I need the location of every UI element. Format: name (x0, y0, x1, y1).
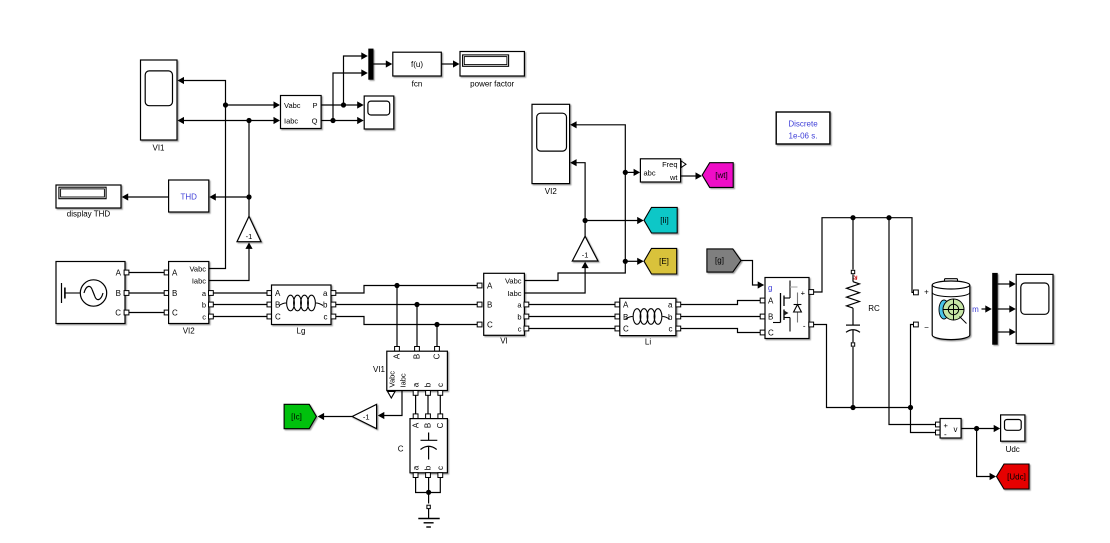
wire demux out 2 (998, 305, 1016, 312)
svg-text:c: c (436, 466, 445, 470)
svg-text:VI2: VI2 (545, 187, 558, 196)
wire VI.Iabc to gain -1 (mid) (524, 262, 588, 293)
svg-text:b: b (668, 313, 673, 322)
svg-text:c: c (436, 383, 445, 387)
svg-text:+: + (801, 289, 806, 298)
svg-text:A: A (768, 297, 774, 306)
display THD (56, 185, 121, 219)
svg-text:display THD: display THD (67, 210, 111, 219)
three-phase VI measurement VI2 (169, 262, 214, 336)
active reactive power meter (Vabc P / Iabc Q) (281, 96, 322, 129)
battery (924, 279, 970, 340)
ground (418, 509, 439, 527)
wire phase C source to VI2 (129, 310, 169, 315)
svg-text:−: − (924, 323, 929, 332)
inductor block Li (620, 298, 681, 346)
svg-text:Iabc: Iabc (192, 277, 206, 286)
svg-text:[wt]: [wt] (715, 171, 727, 180)
svg-text:Vabc: Vabc (505, 277, 522, 286)
svg-text:A: A (275, 289, 281, 298)
wire phase a VI to Li (529, 302, 620, 307)
svg-text:[Ic]: [Ic] (291, 412, 302, 421)
svg-text:B: B (487, 301, 492, 310)
wire from [g] to converter gate (741, 261, 764, 289)
wire C outputs to ground node (416, 478, 441, 509)
wire DC+ rail (converter + to battery +) (814, 215, 919, 295)
svg-text:wt: wt (669, 173, 678, 182)
svg-text:b: b (323, 301, 328, 310)
svg-text:C: C (115, 309, 121, 318)
wire phase a VI2 to Lg (213, 291, 272, 296)
svg-text:v: v (954, 425, 958, 434)
svg-text:-1: -1 (246, 232, 253, 241)
from tag [g] (707, 249, 741, 272)
power factor display (460, 52, 524, 89)
wire mux to fcn (374, 60, 393, 67)
wire DC- rail (converter - to battery -/ v meter) (814, 325, 911, 411)
mux (P,Q) (368, 49, 373, 80)
wire phase a Li to converter (681, 298, 765, 304)
svg-text:Vabc: Vabc (284, 101, 301, 110)
wire tap b down to VI1 (415, 305, 420, 352)
goto tag [Udc] (997, 464, 1030, 489)
svg-text:-: - (803, 322, 806, 331)
wire tap c down to VI1 (435, 325, 440, 352)
svg-text:A: A (411, 422, 420, 428)
wire PLL wt to goto [wt] (681, 172, 702, 179)
wire phase c VI to Li (529, 326, 620, 331)
svg-text:Vabc: Vabc (387, 371, 396, 388)
wire fcn to power factor display (441, 60, 459, 67)
svg-text:a: a (668, 301, 673, 310)
svg-text:B: B (412, 354, 421, 359)
IGBT converter bridge (765, 278, 814, 339)
three-phase VI measurement VI (484, 273, 529, 345)
svg-text:VI2: VI2 (183, 327, 196, 336)
svg-text:a: a (411, 382, 420, 387)
svg-text:fcn: fcn (412, 80, 423, 89)
svg-text:Li: Li (645, 338, 651, 347)
svg-text:abc: abc (644, 169, 656, 178)
svg-text:+: + (924, 288, 929, 297)
svg-text:power factor: power factor (470, 80, 514, 89)
goto tag [wt] (702, 163, 733, 188)
svg-text:C: C (436, 422, 445, 428)
scope PQ (small) (364, 96, 394, 129)
svg-text:Q: Q (312, 117, 318, 126)
wire phase c Li to converter (681, 329, 765, 335)
gain -1 (capacitor current inverter) (352, 404, 376, 428)
gain -1 (Iabc inverter, left) (237, 216, 261, 241)
svg-text:C: C (275, 313, 281, 322)
scope VI1 (141, 60, 178, 153)
svg-text:+: + (944, 421, 949, 430)
goto tag [E] (644, 248, 677, 274)
svg-text:g: g (768, 284, 772, 293)
svg-text:RC: RC (868, 304, 880, 313)
wire phase b VI2 to Lg (213, 302, 272, 307)
wire battery - down to v meter - (908, 322, 940, 435)
wire Vabc measurement net (VI2.Vabc to scope VI1 and PQ meter) (178, 77, 281, 269)
wire demux out 3 (998, 328, 1016, 335)
svg-text:B: B (172, 289, 177, 298)
svg-text:[g]: [g] (715, 256, 724, 265)
svg-text:c: c (202, 313, 206, 322)
svg-text:A: A (392, 353, 401, 359)
wire battery m to demux (972, 305, 992, 314)
svg-text:A: A (487, 282, 493, 291)
svg-text:b: b (424, 465, 433, 470)
wire VI1.c to C.C (438, 395, 443, 418)
svg-text:[Udc]: [Udc] (1007, 473, 1026, 482)
wire Iabc measurement net (gain out to scope VI1 and PQ meter) (178, 117, 281, 216)
gain -1 (line current inverter) (572, 236, 598, 261)
discrete solver annotation (776, 112, 830, 144)
wire VI1.b to C.B (426, 395, 431, 418)
svg-text:VI1: VI1 (152, 144, 165, 153)
svg-text:Iabc: Iabc (507, 289, 521, 298)
wire THD branch (209, 193, 249, 200)
wire VI.Vabc riser (to scope VI2, PLL, goto [E]) (524, 121, 628, 280)
svg-text:C: C (623, 325, 629, 334)
svg-text:1e-06 s.: 1e-06 s. (789, 132, 818, 141)
svg-text:B: B (424, 423, 433, 428)
svg-text:THD: THD (180, 193, 197, 202)
svg-text:-1: -1 (363, 412, 370, 421)
svg-text:B: B (768, 313, 773, 322)
wire phase b VI to Li (529, 314, 620, 319)
svg-text:C: C (398, 445, 404, 454)
wire phase B source to VI2 (129, 291, 169, 296)
scope Udc (1001, 415, 1025, 454)
svg-text:Udc: Udc (1006, 445, 1020, 454)
wire demux out 1 (998, 280, 1016, 287)
wire phase c VI2 to Lg (213, 314, 272, 319)
svg-text:Lg: Lg (297, 327, 306, 336)
wire branch to PLL abc (625, 169, 640, 176)
svg-text:Freq: Freq (662, 160, 677, 169)
svg-text:C: C (432, 353, 441, 359)
svg-text:B: B (116, 289, 121, 298)
wire phase b Li to converter (681, 314, 765, 319)
svg-text:a: a (411, 465, 420, 470)
svg-text:C: C (487, 321, 493, 330)
wire phase a Lg to VI (tap node a) (336, 283, 482, 293)
three-phase VI measurement VI1 (rotated) (373, 351, 447, 398)
wire phase b Lg to VI (tap node b) (336, 302, 482, 307)
svg-text:C: C (768, 329, 774, 338)
svg-text:b: b (202, 301, 206, 310)
series RC branch (846, 220, 880, 408)
svg-text:VI1: VI1 (373, 365, 386, 374)
scope battery (1016, 274, 1053, 343)
svg-text:b: b (424, 382, 433, 387)
svg-text:c: c (669, 325, 673, 334)
wire THD output to display THD (122, 193, 169, 200)
svg-text:Iabc: Iabc (398, 373, 407, 387)
svg-text:c: c (324, 313, 328, 322)
wire VI1.Iabc to gain -1 (bottom) (378, 391, 402, 420)
wire gain -1 to goto [Ic] (318, 413, 353, 420)
demux (battery m) (992, 273, 998, 345)
svg-text:-: - (944, 430, 947, 439)
wire phase A source to VI2 (129, 270, 169, 275)
capacitor bank C (398, 419, 448, 478)
voltage measurement v (940, 419, 961, 439)
wire Q output to mux and scope (321, 69, 368, 124)
svg-text:[E]: [E] (659, 257, 669, 266)
svg-text:m: m (972, 305, 979, 314)
wire v output to scope Udc and goto [Udc] (961, 425, 1000, 480)
three-phase programmable voltage source (56, 262, 129, 324)
wire phase c Lg to VI (tap node c) (336, 317, 482, 328)
svg-text:Vabc: Vabc (189, 265, 206, 274)
svg-text:c: c (518, 325, 522, 334)
scope VI2 (532, 104, 570, 196)
svg-text:P: P (312, 101, 317, 110)
svg-text:C: C (172, 309, 178, 318)
wire branch to goto [E] (625, 258, 643, 265)
THD block (169, 180, 209, 212)
svg-text:A: A (623, 301, 629, 310)
svg-text:-1: -1 (582, 251, 589, 260)
wire tap a down to VI1 (395, 286, 400, 352)
inductor block Lg (272, 285, 336, 336)
wire gain -1 to scope VI2 and goto [Ii] (570, 159, 644, 236)
svg-text:A: A (172, 269, 178, 278)
svg-text:[Ii]: [Ii] (660, 216, 668, 225)
fcn block f(u) (393, 52, 442, 88)
svg-text:f(u): f(u) (411, 60, 423, 69)
svg-text:VI: VI (500, 337, 508, 346)
wire DC+ to v meter + (889, 218, 940, 427)
svg-text:A: A (116, 269, 122, 278)
goto tag [Ic] (284, 404, 316, 428)
svg-text:Discrete: Discrete (788, 120, 818, 129)
svg-text:a: a (323, 289, 328, 298)
PLL block (abc Freq wt) (640, 159, 686, 182)
wire VI2.Iabc to gain -1 (209, 242, 253, 280)
svg-text:Iabc: Iabc (284, 117, 298, 126)
svg-text:b: b (517, 313, 521, 322)
wire VI1.a to C.A (413, 395, 418, 418)
goto tag [Ii] (644, 207, 677, 233)
wire P output to mux and scope (321, 52, 368, 108)
